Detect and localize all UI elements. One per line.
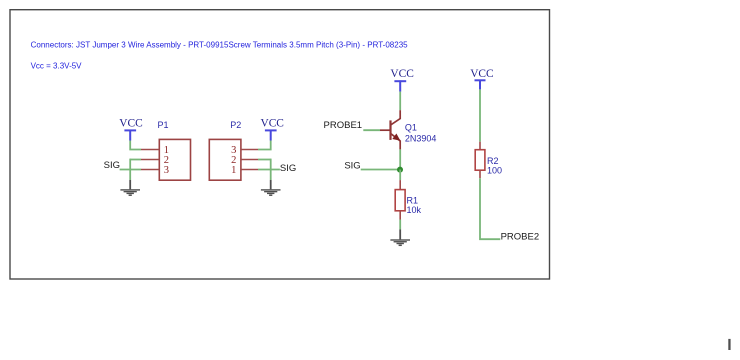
svg-text:PROBE1: PROBE1 bbox=[324, 120, 363, 131]
wire ground rail vertical (P1) bbox=[129, 159, 131, 180]
svg-text:Connectors: JST Jumper 3 Wire: Connectors: JST Jumper 3 Wire Assembly -… bbox=[31, 40, 409, 49]
node junction SIG bbox=[397, 167, 403, 173]
svg-text:1: 1 bbox=[231, 165, 236, 176]
svg-text:10k: 10k bbox=[407, 205, 422, 215]
wire SIG to P1 pin 3 bbox=[120, 169, 141, 171]
pin 2 (P2) bbox=[231, 155, 258, 166]
wire PROBE1 to Q1 base bbox=[363, 129, 380, 131]
resistor R1 bbox=[395, 180, 421, 219]
ground (P1) bbox=[120, 180, 140, 196]
wire VCC to P1 pin 1 bbox=[130, 141, 141, 150]
wire R2 to PROBE2 bbox=[480, 178, 500, 239]
wire Q1 emitter to SIG node bbox=[399, 149, 401, 169]
wire P1 pin 2 stub to ground rail bbox=[130, 159, 141, 161]
connector P2 bbox=[209, 120, 241, 180]
svg-text:SIG: SIG bbox=[280, 163, 296, 174]
svg-text:VCC: VCC bbox=[390, 68, 413, 80]
svg-text:VCC: VCC bbox=[470, 68, 493, 80]
wire ground rail vertical (P2) bbox=[270, 159, 272, 180]
svg-text:SIG: SIG bbox=[344, 160, 360, 171]
power VCC (Q1 collector) bbox=[390, 68, 413, 91]
svg-text:R1: R1 bbox=[407, 195, 419, 205]
pin 2 (P1) bbox=[141, 155, 169, 166]
wire P2 pin 1 to SIG bbox=[258, 169, 280, 171]
pin 3 (P2) bbox=[231, 145, 258, 156]
svg-text:P1: P1 bbox=[158, 120, 169, 130]
power VCC (R2) bbox=[470, 68, 493, 90]
svg-text:3: 3 bbox=[164, 165, 169, 176]
ground (R1) bbox=[390, 230, 410, 247]
wire P2 pin 2 stub to ground rail bbox=[258, 159, 271, 161]
pin 1 (P1) bbox=[141, 145, 169, 156]
power VCC (P2) bbox=[260, 117, 283, 140]
svg-text:R2: R2 bbox=[487, 156, 499, 166]
pin 3 (P1) bbox=[141, 165, 169, 176]
svg-text:100: 100 bbox=[487, 166, 502, 176]
wire VCC to Q1 collector bbox=[399, 92, 401, 111]
svg-text:2N3904: 2N3904 bbox=[405, 133, 437, 143]
wire R1 to ground bbox=[399, 220, 401, 230]
resistor R2 bbox=[475, 142, 502, 179]
ground (P2) bbox=[261, 180, 281, 196]
wire VCC to P2 pin 3 bbox=[258, 141, 271, 150]
wire SIG to node bbox=[361, 169, 401, 171]
cursor tick mark bottom right bbox=[728, 339, 730, 350]
svg-text:SIG: SIG bbox=[104, 160, 120, 171]
wire node to R1 bbox=[399, 170, 401, 181]
wire VCC to R2 bbox=[479, 89, 481, 141]
power VCC (P1) bbox=[119, 117, 142, 140]
sheet border frame bbox=[10, 10, 550, 279]
svg-text:VCC: VCC bbox=[119, 117, 142, 129]
connector P1 bbox=[158, 120, 191, 180]
svg-text:Vcc = 3.3V-5V: Vcc = 3.3V-5V bbox=[31, 61, 83, 70]
svg-text:Q1: Q1 bbox=[405, 122, 417, 132]
svg-text:P2: P2 bbox=[230, 120, 241, 130]
pin 1 (P2) bbox=[231, 165, 258, 176]
transistor Q1 bbox=[380, 110, 436, 149]
svg-text:VCC: VCC bbox=[260, 117, 283, 129]
svg-text:PROBE2: PROBE2 bbox=[501, 231, 540, 242]
